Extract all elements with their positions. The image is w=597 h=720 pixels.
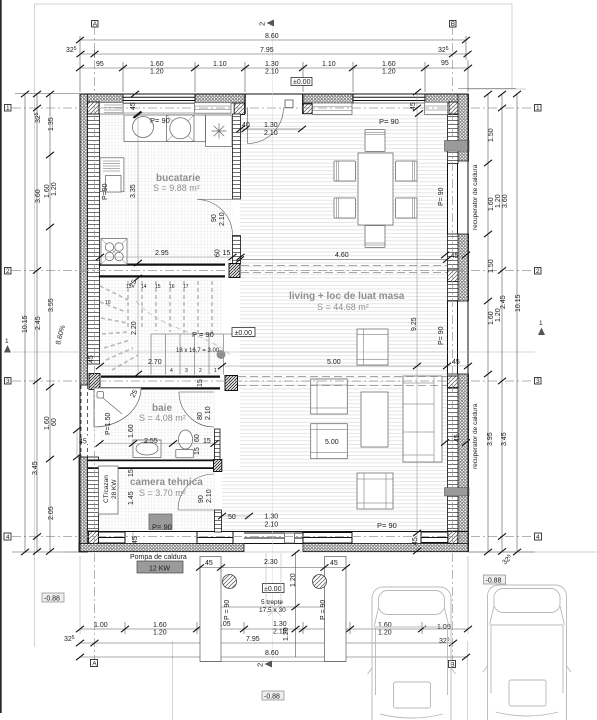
svg-text:1.60: 1.60 [488,311,495,325]
svg-text:7.95: 7.95 [246,636,260,643]
svg-text:90: 90 [211,214,218,222]
svg-text:16: 16 [169,284,175,290]
svg-text:2.45: 2.45 [35,316,42,330]
svg-text:P= 90: P= 90 [438,326,445,345]
svg-text:A: A [93,21,98,28]
svg-text:2.70: 2.70 [148,359,162,366]
svg-text:P= 90: P= 90 [438,187,445,206]
svg-text:1.20: 1.20 [495,194,502,208]
svg-text:2.10: 2.10 [205,406,212,420]
svg-text:1.60: 1.60 [128,424,135,438]
svg-text:4.60: 4.60 [335,252,349,259]
svg-text:P = 90: P = 90 [320,600,327,620]
svg-text:1.20: 1.20 [290,573,297,587]
svg-text:15: 15 [128,469,135,477]
svg-text:8.60: 8.60 [265,650,279,657]
svg-text:1.30: 1.30 [264,122,278,129]
svg-text:1.45: 1.45 [128,491,135,505]
svg-text:4: 4 [536,534,540,541]
svg-text:2.10: 2.10 [265,522,279,529]
svg-text:3.45: 3.45 [501,432,508,446]
svg-text:1.30: 1.30 [265,61,279,68]
svg-text:1: 1 [539,320,543,327]
svg-text:1.10: 1.10 [213,61,227,68]
svg-text:Pompa de caldura: Pompa de caldura [130,554,187,561]
svg-text:95: 95 [441,60,449,67]
svg-text:2: 2 [258,22,267,26]
svg-text:3: 3 [536,378,540,385]
svg-text:A: A [92,661,97,668]
svg-text:2.10: 2.10 [265,69,279,76]
svg-text:camera tehnica: camera tehnica [130,477,203,488]
svg-text:45: 45 [79,439,87,446]
svg-text:3: 3 [185,368,188,374]
svg-text:3: 3 [6,378,10,385]
svg-text:15: 15 [203,438,211,445]
svg-text:14: 14 [141,284,147,290]
svg-text:12 KW: 12 KW [149,566,170,573]
svg-text:1.20: 1.20 [51,182,58,196]
svg-text:S = 3.70 m²: S = 3.70 m² [139,488,186,498]
svg-text:-0.88: -0.88 [44,596,60,603]
svg-text:2.45: 2.45 [500,295,507,309]
svg-text:80: 80 [197,412,204,420]
svg-text:10.15: 10.15 [515,294,522,312]
svg-text:2: 2 [199,368,202,374]
svg-text:1.60: 1.60 [488,197,495,211]
svg-text:1.20: 1.20 [283,627,290,641]
svg-text:1.60: 1.60 [150,61,164,68]
svg-text:2: 2 [536,268,540,275]
svg-text:3.60: 3.60 [35,189,42,203]
svg-text:1.20: 1.20 [150,69,164,76]
svg-text:±0.00: ±0.00 [264,586,282,593]
svg-text:S = 9.88 m²: S = 9.88 m² [153,183,200,193]
svg-text:15: 15 [155,284,161,290]
svg-text:60: 60 [194,434,201,442]
svg-text:1.20: 1.20 [153,630,167,637]
svg-text:10: 10 [105,300,111,306]
svg-text:3.35: 3.35 [130,184,137,198]
svg-text:4: 4 [6,534,10,541]
svg-text:4: 4 [170,368,173,374]
svg-text:1.60: 1.60 [153,622,167,629]
svg-text:P=1.50: P=1.50 [105,413,112,435]
svg-text:2.10: 2.10 [264,130,278,137]
svg-text:2.30: 2.30 [264,559,278,566]
svg-text:60: 60 [51,418,58,426]
svg-text:recuperator de caldura: recuperator de caldura [472,164,479,230]
svg-text:1.30: 1.30 [265,514,279,521]
svg-text:2.20: 2.20 [131,321,138,335]
svg-text:P=90: P=90 [102,183,109,200]
svg-text:45: 45 [330,560,338,567]
svg-text:S = 44.68 m²: S = 44.68 m² [317,302,369,312]
svg-text:2: 2 [256,663,265,667]
svg-text:60: 60 [215,249,222,257]
svg-text:9.25: 9.25 [411,317,418,331]
svg-text:17,5 x 30: 17,5 x 30 [259,607,286,614]
svg-text:18 x 16,7 = 3.00: 18 x 16,7 = 3.00 [176,348,220,354]
svg-text:2.55: 2.55 [144,438,158,445]
svg-text:28 KW: 28 KW [111,479,118,499]
svg-text:1: 1 [6,105,10,112]
svg-text:45: 45 [205,560,213,567]
svg-text:1: 1 [214,368,217,374]
svg-text:45: 45 [130,102,137,110]
svg-text:45: 45 [132,536,139,544]
svg-text:1.20: 1.20 [382,69,396,76]
svg-text:15: 15 [194,447,201,455]
svg-text:10.15: 10.15 [22,315,29,333]
svg-text:-0.88: -0.88 [486,578,502,585]
svg-text:S = 4.08 m²: S = 4.08 m² [139,413,186,423]
svg-text:3.55: 3.55 [48,298,55,312]
svg-text:5.00: 5.00 [325,439,339,446]
svg-text:45: 45 [451,253,459,260]
svg-text:living + loc de luat masa: living + loc de luat masa [289,291,405,302]
svg-text:5 trepte: 5 trepte [261,599,283,606]
svg-text:±0.00: ±0.00 [293,79,311,86]
svg-text:1: 1 [536,105,540,112]
svg-text:P= 90: P= 90 [379,117,399,126]
svg-text:2.10: 2.10 [206,489,213,503]
svg-text:P = 90: P = 90 [224,600,231,620]
svg-text:3.45: 3.45 [32,461,39,475]
svg-text:45: 45 [412,537,419,545]
svg-text:45: 45 [88,355,95,363]
svg-text:1.30: 1.30 [273,621,287,628]
svg-text:P= 90: P= 90 [377,521,397,530]
svg-text:45: 45 [410,102,417,110]
svg-text:1.50: 1.50 [488,259,495,273]
svg-text:1.35: 1.35 [48,117,55,131]
svg-text:5.00: 5.00 [327,359,341,366]
svg-text:1.20: 1.20 [378,630,392,637]
svg-text:1.60: 1.60 [44,416,51,430]
svg-text:1: 1 [5,338,9,345]
svg-text:2.05: 2.05 [48,506,55,520]
svg-text:2.95: 2.95 [155,250,169,257]
svg-text:P= 90: P= 90 [152,523,172,532]
svg-text:1.10: 1.10 [322,61,336,68]
svg-text:1.20: 1.20 [495,308,502,322]
svg-text:3.95: 3.95 [487,432,494,446]
svg-text:8.60: 8.60 [265,33,279,40]
svg-text:15: 15 [223,250,231,257]
svg-text:45: 45 [452,359,460,366]
svg-text:CT/cazan: CT/cazan [103,475,110,503]
svg-text:15: 15 [197,379,204,387]
svg-text:-0.88: -0.88 [264,694,280,701]
svg-text:1.50: 1.50 [488,128,495,142]
svg-text:17: 17 [183,284,189,290]
svg-text:95: 95 [96,61,104,68]
svg-text:1.60: 1.60 [44,184,51,198]
svg-text:recuperator de caldura: recuperator de caldura [472,403,479,469]
svg-text:1.60: 1.60 [382,61,396,68]
svg-text:±0.00: ±0.00 [235,330,253,337]
svg-text:2: 2 [6,268,10,275]
svg-text:90: 90 [198,495,205,503]
svg-text:1.00: 1.00 [94,622,108,629]
svg-text:45: 45 [454,434,461,442]
svg-text:P= 90: P= 90 [150,116,170,125]
svg-text:50: 50 [228,514,236,521]
svg-text:7.95: 7.95 [260,47,274,54]
svg-text:B: B [451,21,455,28]
svg-text:2.10: 2.10 [219,212,226,226]
svg-text:1.60: 1.60 [378,622,392,629]
svg-text:P = 90: P = 90 [192,330,214,339]
svg-text:3.60: 3.60 [502,194,509,208]
